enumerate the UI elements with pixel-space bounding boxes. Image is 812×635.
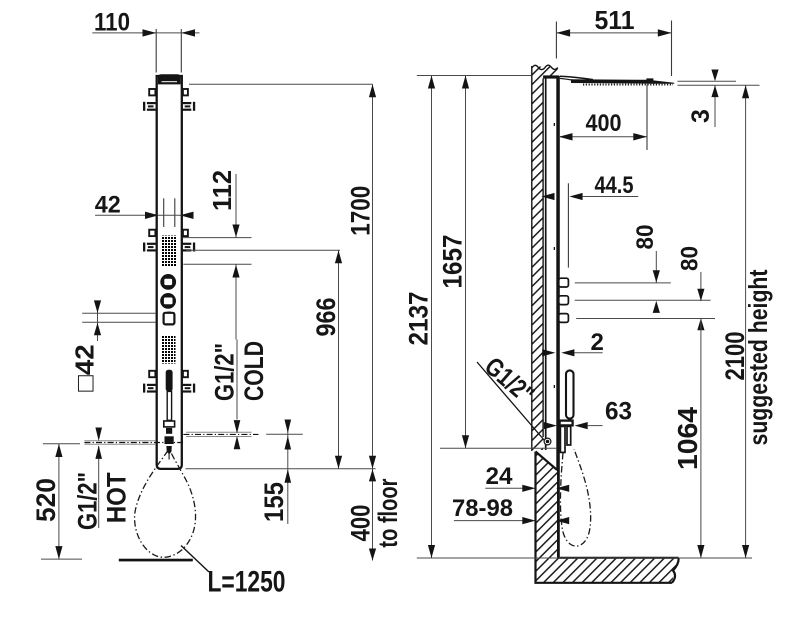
svg-text:80: 80 [632, 225, 659, 250]
svg-text:COLD: COLD [239, 341, 269, 401]
svg-text:155: 155 [259, 482, 289, 522]
svg-text:suggested height: suggested height [743, 269, 773, 445]
svg-text:80: 80 [677, 246, 704, 271]
svg-text:42: 42 [95, 191, 121, 218]
svg-text:L=1250: L=1250 [208, 566, 286, 599]
svg-text:3: 3 [687, 109, 715, 123]
svg-text:24: 24 [486, 463, 514, 490]
svg-text:□42: □42 [70, 344, 100, 392]
svg-text:1064: 1064 [672, 407, 703, 470]
svg-text:520: 520 [31, 478, 61, 522]
svg-text:HOT: HOT [101, 472, 131, 523]
svg-text:2: 2 [591, 329, 604, 356]
svg-text:511: 511 [595, 5, 635, 35]
svg-text:400: 400 [345, 505, 375, 542]
svg-text:78-98: 78-98 [452, 495, 513, 522]
svg-text:to floor: to floor [373, 478, 403, 547]
svg-text:1657: 1657 [438, 235, 468, 289]
svg-text:110: 110 [94, 9, 130, 37]
svg-text:966: 966 [311, 298, 341, 337]
svg-text:400: 400 [586, 110, 622, 137]
svg-text:63: 63 [605, 397, 632, 425]
svg-text:2137: 2137 [404, 292, 434, 346]
svg-text:112: 112 [207, 170, 237, 211]
svg-text:G1/2": G1/2" [210, 343, 240, 401]
svg-text:G1/2": G1/2" [73, 472, 103, 530]
svg-text:1700: 1700 [345, 186, 375, 236]
svg-text:44.5: 44.5 [595, 172, 634, 199]
